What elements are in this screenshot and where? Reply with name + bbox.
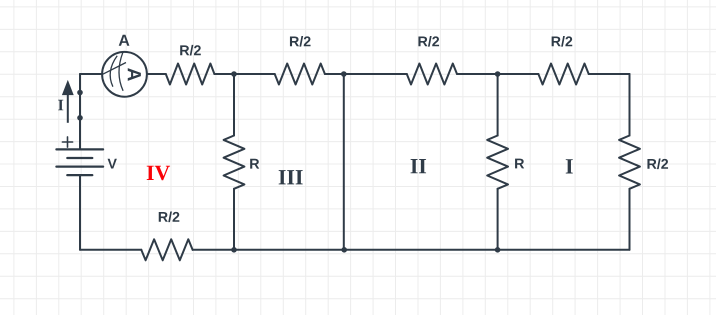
wire left side above battery (79, 74, 81, 149)
current arrow I (63, 81, 73, 123)
label V (108, 159, 117, 169)
battery V (56, 149, 103, 175)
wire bottom right run (193, 249, 630, 251)
resistor R/2 top2 (275, 64, 325, 85)
node J1 bottom (231, 247, 237, 253)
wire J3 to R/2 top4 (457, 73, 538, 75)
wire left side below battery (79, 175, 81, 250)
wire right side upper (629, 74, 631, 136)
node dot left lower (77, 115, 83, 121)
resistor R/2 top3 (407, 64, 457, 85)
label R branch2 (515, 159, 524, 169)
battery plate long 2 (56, 166, 103, 168)
node J2 bottom (341, 247, 347, 253)
wire branch x=343.8 (343, 74, 345, 250)
resistor R/2 right vertical (619, 136, 640, 189)
label R/2 top3 (418, 36, 439, 47)
ammeter letter A (rotated) (128, 68, 141, 81)
label II (411, 159, 427, 173)
wire J2 to R/2 top3 (325, 73, 407, 75)
meter needle (103, 63, 126, 75)
resistor R branch1 vertical (224, 136, 245, 189)
wire ammeter right lead (147, 73, 166, 75)
wire right side lower (629, 189, 631, 250)
ammeter U1 (102, 52, 147, 97)
battery plate long 1 (56, 148, 103, 150)
wire branch x=497.6 upper (497, 74, 499, 136)
wire bottom left run (80, 249, 141, 251)
battery plate short 1 (67, 157, 92, 159)
node dot left upper (77, 90, 83, 96)
meter dial arc right (119, 52, 123, 91)
wire branch x=234 upper (233, 74, 235, 136)
label I (section) (566, 159, 573, 173)
resistor R branch2 vertical (487, 136, 508, 189)
label R/2 right (647, 159, 668, 170)
label R branch1 (250, 159, 259, 169)
label IV (red) (147, 166, 170, 181)
node J2 top (341, 71, 347, 77)
meter dial arc left (110, 56, 117, 87)
wire branch x=234 lower (233, 189, 235, 250)
node J3 top (495, 71, 501, 77)
resistor R/2 bottom (141, 239, 192, 260)
node J3 bottom (495, 247, 501, 253)
label R/2 top1 (180, 45, 201, 56)
label A (ammeter) (119, 35, 130, 46)
resistor R/2 top4 (538, 64, 588, 85)
battery plate short 2 (67, 174, 92, 176)
plus sign (62, 137, 72, 147)
wire branch x=497.6 lower (497, 189, 499, 250)
label R/2 bottom (159, 212, 180, 223)
wire to node J1 (214, 73, 274, 75)
resistor R/2 top1 (166, 64, 215, 85)
label R/2 top2 (290, 36, 311, 47)
wire top-left corner to ammeter (80, 73, 102, 75)
node J1 top (231, 71, 237, 77)
wire to top-right corner (589, 73, 630, 75)
label R/2 top4 (552, 36, 573, 47)
label I (current) (58, 100, 63, 111)
label III (279, 170, 303, 184)
